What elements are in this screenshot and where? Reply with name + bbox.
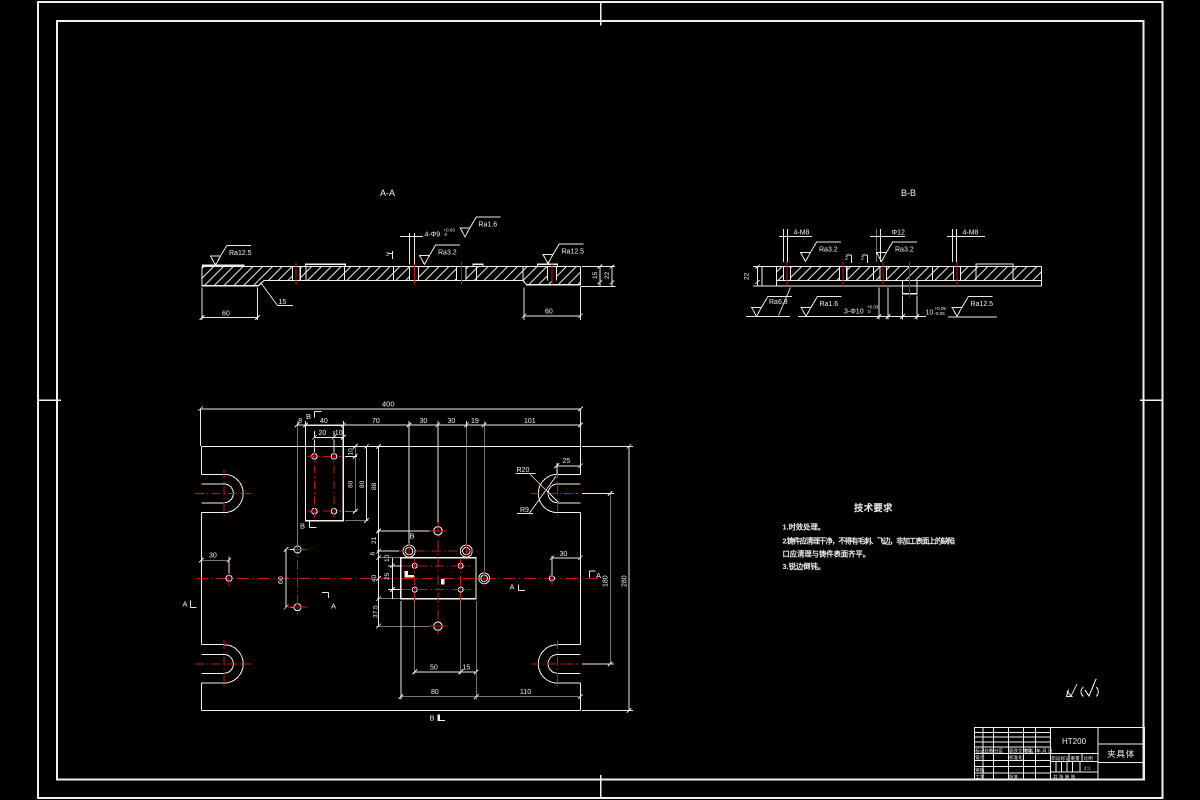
svg-text:比例: 比例 xyxy=(1084,755,1094,762)
svg-text:88: 88 xyxy=(371,482,378,490)
U-slot bottom-right xyxy=(538,645,580,683)
underline right xyxy=(948,316,997,318)
svg-text:B: B xyxy=(430,714,435,723)
svg-text:阶段标记: 阶段标记 xyxy=(1052,755,1071,762)
section panel dividers xyxy=(874,266,1013,280)
svg-text:180: 180 xyxy=(603,575,610,587)
U-slot top-left R20/R9 xyxy=(201,474,243,512)
svg-text:Ra3.2: Ra3.2 xyxy=(895,246,914,253)
center pattern box xyxy=(401,558,476,599)
svg-text:10: 10 xyxy=(926,310,934,317)
svg-text:22: 22 xyxy=(744,272,751,280)
svg-text:10: 10 xyxy=(384,554,391,562)
svg-text:40: 40 xyxy=(320,418,328,425)
surface finish Ra12.5 right xyxy=(543,244,583,264)
svg-text:B-B: B-B xyxy=(901,188,916,198)
small pad marks xyxy=(846,255,868,263)
svg-text:25: 25 xyxy=(563,458,571,465)
svg-text:审核: 审核 xyxy=(975,767,985,774)
svg-text:年.月.日: 年.月.日 xyxy=(1036,747,1052,754)
center boss below plate xyxy=(903,281,917,294)
leader diagonal xyxy=(779,288,791,316)
svg-text:1.时效处理。: 1.时效处理。 xyxy=(783,522,826,531)
bottom hole of center pattern xyxy=(434,622,442,630)
svg-text:60: 60 xyxy=(222,311,230,318)
svg-text:R9: R9 xyxy=(520,507,529,514)
tiny header texts xyxy=(975,747,1093,780)
60 dim between column holes xyxy=(284,547,294,609)
svg-text:2: 2 xyxy=(845,256,848,262)
surface finish Ra12.5 bottom right xyxy=(952,297,992,317)
title block outer frame xyxy=(975,728,1145,781)
svg-text:分区: 分区 xyxy=(994,747,1004,754)
svg-text:80: 80 xyxy=(431,689,439,696)
small pad height mark xyxy=(388,251,393,259)
280 dim right xyxy=(582,444,633,713)
vertical red centerline center pattern xyxy=(437,523,439,635)
svg-text:2:1: 2:1 xyxy=(1084,766,1091,771)
hole gap 2 in section xyxy=(409,266,418,281)
25 dim top right xyxy=(555,463,583,475)
svg-text:30: 30 xyxy=(560,551,568,558)
svg-text:21: 21 xyxy=(371,536,378,544)
400 dim top xyxy=(198,407,583,447)
4-M8 callout left xyxy=(779,229,812,262)
svg-text:15: 15 xyxy=(592,271,599,279)
right section rows xyxy=(1098,743,1144,745)
left column lines xyxy=(982,728,984,781)
svg-text:标准化: 标准化 xyxy=(1009,754,1023,761)
top hole of center pattern xyxy=(434,527,442,535)
part outline with slot openings xyxy=(201,446,580,710)
hole gap phi12 xyxy=(840,266,847,282)
svg-text:Φ12: Φ12 xyxy=(892,230,905,237)
middle section xyxy=(1097,728,1099,781)
svg-text:A: A xyxy=(331,602,336,611)
centering tick bottom xyxy=(600,775,602,798)
svg-text:A: A xyxy=(510,583,515,592)
surface finish Ra3.2 left xyxy=(801,242,841,262)
svg-text:Ra3.2: Ra3.2 xyxy=(438,249,457,256)
svg-text:60: 60 xyxy=(545,309,553,316)
surface finish summary mark (check) xyxy=(1067,679,1099,697)
svg-text:批准: 批准 xyxy=(1009,774,1019,781)
svg-text:R20: R20 xyxy=(517,467,530,474)
svg-text:设计: 设计 xyxy=(975,754,985,761)
svg-text:19: 19 xyxy=(471,418,479,425)
30 dim left hole xyxy=(199,557,231,574)
red centerlines of slots xyxy=(195,470,579,689)
left 22 thickness dim xyxy=(753,265,762,286)
extension lines from dim row down xyxy=(297,427,484,572)
svg-text:110: 110 xyxy=(520,689,531,696)
top counterbored holes xyxy=(403,545,472,557)
surface finish Ra3.2 xyxy=(420,245,460,265)
180 dim right xyxy=(582,491,614,666)
svg-text:2: 2 xyxy=(861,256,864,262)
svg-text:夹具体: 夹具体 xyxy=(1107,748,1135,759)
bottom dim line xyxy=(798,288,926,320)
A-A hatched plate body xyxy=(202,267,580,286)
svg-text:25: 25 xyxy=(384,572,391,580)
column holes x297 xyxy=(294,546,301,553)
top pad left block xyxy=(202,265,244,266)
svg-text:-0.05: -0.05 xyxy=(935,311,946,316)
svg-text:A: A xyxy=(596,571,601,580)
svg-text:签名: 签名 xyxy=(1024,747,1033,754)
bottom 60 dim right xyxy=(522,287,583,320)
right-of-box dim L4 xyxy=(388,558,405,599)
svg-text:4-Φ9: 4-Φ9 xyxy=(425,232,441,239)
svg-text:40: 40 xyxy=(371,574,378,582)
hole gap M8 right xyxy=(954,266,961,282)
svg-text:70: 70 xyxy=(372,418,380,425)
section panel divider lines xyxy=(306,267,523,281)
B section jog thick bar right xyxy=(441,579,445,585)
top pad right xyxy=(976,264,1013,266)
right-of-box dim L1 xyxy=(345,444,358,514)
hole gap 3 in section xyxy=(456,266,466,281)
centering tick top xyxy=(600,2,602,25)
svg-text:Ra1.6: Ra1.6 xyxy=(820,301,839,308)
second dim row xyxy=(295,421,583,428)
svg-text:处数: 处数 xyxy=(984,747,994,754)
B-box holes xyxy=(312,454,337,514)
hole gap 4 in section xyxy=(547,266,556,281)
phi12 callout center xyxy=(870,229,905,262)
hole gap M8 left xyxy=(784,266,791,282)
svg-text:30: 30 xyxy=(448,418,456,425)
4-phi9 hole callout xyxy=(400,233,423,265)
svg-text:30: 30 xyxy=(420,418,428,425)
right side thickness dims xyxy=(580,265,615,287)
hole wall lines xyxy=(293,267,557,281)
svg-text:工艺: 工艺 xyxy=(975,775,985,780)
svg-text:3.锐边倒钝。: 3.锐边倒钝。 xyxy=(783,562,826,571)
svg-text:2: 2 xyxy=(386,252,389,258)
svg-text:20: 20 xyxy=(319,430,327,437)
svg-text:Ra12.5: Ra12.5 xyxy=(229,250,252,257)
title block grid lines xyxy=(975,728,1145,781)
svg-text:4-M8: 4-M8 xyxy=(963,230,979,237)
surface finish Ra1.6 xyxy=(460,217,500,237)
svg-text:400: 400 xyxy=(382,400,395,409)
centering tick left xyxy=(38,399,61,401)
U-slot bottom-left xyxy=(201,645,243,683)
svg-text:Ra3.2: Ra3.2 xyxy=(819,246,838,253)
A-A plate outline xyxy=(202,264,580,286)
B-box rectangle xyxy=(306,426,344,521)
surface finish Ra6.3 bottom left xyxy=(752,297,792,317)
svg-text:50: 50 xyxy=(430,665,438,672)
below-box 80/110 dims xyxy=(399,601,583,700)
svg-text:3-Φ10: 3-Φ10 xyxy=(844,309,864,316)
svg-text:Ra12.5: Ra12.5 xyxy=(971,301,994,308)
20/10 dim xyxy=(312,431,346,452)
hole wall lines xyxy=(784,266,961,280)
svg-text:60: 60 xyxy=(348,480,355,488)
surface finish Ra1.6 bottom xyxy=(801,297,841,317)
main horizontal red centerline xyxy=(196,577,600,579)
center box 4 holes xyxy=(412,563,463,592)
svg-text:4-M8: 4-M8 xyxy=(794,230,810,237)
svg-text:B: B xyxy=(300,522,305,531)
svg-text:6: 6 xyxy=(370,552,377,556)
svg-text:技术要求: 技术要求 xyxy=(854,502,893,513)
svg-text:37.5: 37.5 xyxy=(373,605,380,618)
svg-text:2.铸件应清理干净，不得有毛刺、飞边，非加工表面上的缺陷: 2.铸件应清理干净，不得有毛刺、飞边，非加工表面上的缺陷 xyxy=(783,536,956,545)
svg-text:30: 30 xyxy=(209,553,217,560)
surface finish Ra3.2 center xyxy=(877,242,917,262)
svg-text:A-A: A-A xyxy=(380,188,395,198)
svg-text:280: 280 xyxy=(621,575,628,587)
leader 15 plate thickness xyxy=(261,283,293,306)
svg-text:22: 22 xyxy=(604,271,611,279)
top pad right block xyxy=(537,264,557,266)
B-B plate outline xyxy=(762,264,1042,294)
svg-text:口应清理与铸件表面齐平。: 口应清理与铸件表面齐平。 xyxy=(783,549,871,558)
svg-text:101: 101 xyxy=(524,418,536,425)
hole gap phi10 xyxy=(880,266,887,282)
bottom 60 dim left xyxy=(200,288,260,321)
left hole xyxy=(226,575,232,581)
svg-text:B: B xyxy=(306,412,311,421)
right mid hole with 30 dim xyxy=(549,576,554,581)
centering tick right xyxy=(1140,399,1163,401)
Ra6.3 underline xyxy=(746,316,790,318)
svg-text:共 张 第 张: 共 张 第 张 xyxy=(1053,774,1076,781)
top pad small xyxy=(473,264,483,266)
left revision rows xyxy=(975,731,1051,733)
svg-text:B: B xyxy=(410,532,415,541)
red hole centerlines B-B xyxy=(787,262,957,298)
svg-text:重量: 重量 xyxy=(1071,755,1081,762)
A section mark mid-left xyxy=(322,593,329,599)
svg-text:Ra1.6: Ra1.6 xyxy=(479,222,498,229)
U-slot top-right xyxy=(538,474,580,512)
svg-text:80: 80 xyxy=(359,480,366,488)
top pad over B-box xyxy=(305,264,345,266)
B-B hatched plate body xyxy=(777,266,1042,280)
svg-text:15: 15 xyxy=(463,665,471,672)
red hole centerlines A-A xyxy=(296,262,552,285)
right-of-box dim L2 xyxy=(345,444,369,523)
svg-text:Ra12.5: Ra12.5 xyxy=(562,248,585,255)
svg-text:60: 60 xyxy=(278,576,285,584)
svg-text:10: 10 xyxy=(348,448,355,456)
svg-text:15: 15 xyxy=(279,299,287,306)
A section mark right end xyxy=(590,571,596,578)
right counterbored hole xyxy=(479,573,490,584)
B section jog thick bar left xyxy=(404,571,408,578)
hole gap 1 in section xyxy=(293,266,301,281)
4-M8 callout right xyxy=(947,229,985,262)
svg-text:10: 10 xyxy=(335,430,343,437)
svg-text:HT200: HT200 xyxy=(1062,737,1087,746)
below-box 50/15 dims xyxy=(412,601,478,675)
right-of-box dim L3 stacked xyxy=(376,444,434,629)
svg-text:A: A xyxy=(183,599,188,608)
svg-text:8: 8 xyxy=(298,418,302,425)
surface finish Ra12.5 left xyxy=(211,246,251,266)
